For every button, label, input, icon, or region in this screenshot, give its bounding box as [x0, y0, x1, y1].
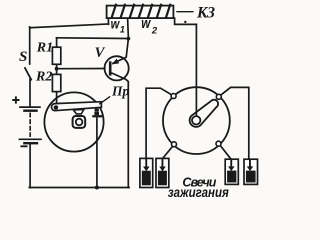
resistor R2 body	[52, 74, 60, 91]
distributor cap circle	[163, 87, 230, 154]
transistor V emitter arrowhead (points to base, PNP)	[112, 59, 119, 65]
breaker fixed contact plate	[92, 115, 102, 117]
wire: w1/w2 tap down to junction and to transistor emitter	[126, 18, 128, 57]
wire: breaker contact stem to bottom bus	[96, 117, 98, 187]
distributor terminal nub lower-right	[216, 141, 221, 146]
svg-text:Пр: Пр	[111, 83, 130, 98]
wire: lower-right cap terminal to plug 3	[220, 146, 231, 160]
svg-text:R1: R1	[36, 41, 53, 56]
wire: left rail upper segment	[29, 27, 31, 64]
battery cell2 short plate	[24, 142, 37, 144]
breaker cam shaft circle	[76, 119, 83, 126]
breaker lever arm	[51, 102, 101, 111]
wire: rail below switch to battery	[29, 79, 31, 106]
battery minus mark	[21, 145, 26, 147]
label pointer dash to KZ	[176, 11, 193, 13]
breaker rubbing block	[73, 109, 84, 114]
label w2	[141, 15, 151, 31]
wire: coil left stub	[107, 18, 109, 24]
label plus	[12, 96, 19, 103]
wire: R2 bottom down to breaker lever pivot	[56, 92, 58, 105]
svg-text:V: V	[95, 45, 106, 61]
svg-text:w: w	[141, 15, 151, 31]
resistor R1 body	[52, 47, 60, 64]
wire: R1 top stub	[56, 38, 58, 47]
breaker cam body	[73, 116, 86, 128]
svg-text:R2: R2	[35, 69, 52, 84]
wire: coil right step to HT line	[175, 18, 197, 24]
wire: transistor collector down to bottom bus	[126, 79, 128, 187]
switch S blade	[25, 68, 31, 80]
wire: HT line down to distributor rotor	[195, 24, 197, 116]
svg-text:1: 1	[120, 24, 125, 34]
wire: R1 bottom / R2 top stub	[56, 64, 58, 74]
junction dot at coil tap	[126, 37, 130, 41]
label w1	[111, 16, 121, 31]
ignition coil KZ winding box	[107, 4, 174, 18]
distributor terminal nub upper-right	[216, 94, 221, 99]
transistor V	[105, 56, 129, 80]
junction dot between R1 and R2	[55, 67, 59, 71]
spark plug 4	[244, 159, 258, 184]
spark plug 1	[140, 158, 153, 187]
svg-text:S: S	[19, 49, 27, 65]
battery dashed middle (omitted cells)	[29, 113, 31, 136]
spark plug 2	[156, 158, 169, 187]
svg-text:КЗ: КЗ	[196, 5, 215, 22]
battery cell1 short plate	[24, 109, 36, 111]
wire: HT line inside distributor	[195, 87, 197, 116]
wire: rail from battery to bottom bus	[29, 144, 31, 188]
breaker fixed contact block	[94, 112, 99, 115]
stray print dot near KZ wire	[184, 21, 186, 23]
distributor rotor arm (teardrop)	[190, 100, 219, 127]
wire: horizontal R1-top to coil tap junction	[57, 37, 129, 40]
breaker Pr circle	[44, 92, 103, 151]
battery cell2 long plate	[19, 138, 41, 140]
wire: base wire from R1R2 junction to transistor	[57, 68, 105, 70]
label pointer line for Pr	[99, 96, 110, 104]
wire: bottom bus	[29, 187, 129, 189]
svg-text:зажигания: зажигания	[168, 184, 229, 200]
wire: upper-left cap terminal to plug 1	[146, 88, 172, 158]
wire: top horizontal from switch rail to coil w1 left terminal	[30, 24, 109, 28]
battery GB cell1 long plate	[20, 106, 40, 108]
distributor rotor shaft circle	[192, 116, 200, 124]
distributor terminal nub lower-left	[172, 142, 177, 147]
junction dot on bottom bus	[95, 186, 99, 190]
distributor terminal nub upper-left	[171, 94, 176, 99]
wire: upper-right cap terminal to plug 4	[221, 87, 249, 159]
spark plug 3	[225, 159, 238, 184]
breaker moving contact block	[95, 109, 99, 112]
wire: lower-left cap terminal to plug 2	[163, 146, 173, 158]
breaker lever pivot dot	[54, 105, 59, 110]
svg-text:2: 2	[151, 26, 158, 37]
